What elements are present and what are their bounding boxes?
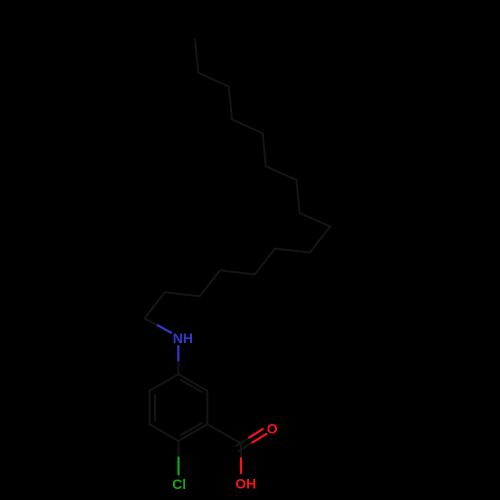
svg-text:Cl: Cl [172,476,186,492]
svg-text:OH: OH [235,475,256,491]
svg-text:NH: NH [173,330,193,346]
svg-text:O: O [267,421,278,437]
